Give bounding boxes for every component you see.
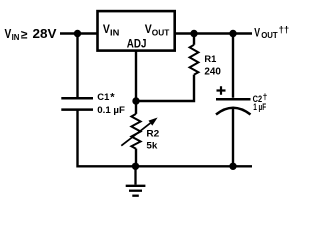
svg-text:0.1 µF: 0.1 µF bbox=[97, 105, 125, 116]
wire input to regulator bbox=[60, 32, 97, 34]
wire C2 bottom lead bbox=[232, 109, 234, 167]
node: ground junction bbox=[132, 163, 139, 170]
capacitor C2 (polarized) bbox=[216, 98, 251, 101]
label VOUT pin bbox=[145, 22, 170, 37]
svg-text:R1: R1 bbox=[204, 54, 217, 65]
label VIN pin bbox=[103, 22, 120, 37]
wire C1 bottom to ground rail bbox=[78, 110, 253, 166]
node: C2 top junction bbox=[229, 30, 236, 37]
resistor R1 bbox=[190, 45, 199, 75]
svg-text:V: V bbox=[103, 22, 110, 36]
svg-text:R2: R2 bbox=[146, 128, 159, 139]
wire R1 top lead bbox=[193, 34, 195, 45]
ground bbox=[126, 166, 146, 196]
wire R2 bottom lead bbox=[135, 149, 137, 167]
svg-text:240: 240 bbox=[204, 67, 221, 78]
label VOUT output bbox=[254, 24, 289, 40]
capacitor C1 bbox=[61, 97, 93, 100]
wire ADJ pin stub bbox=[135, 52, 137, 102]
op-amp U1 regulator box bbox=[98, 11, 175, 51]
label VIN >= 28V bbox=[5, 27, 58, 42]
node: R1 top junction bbox=[190, 30, 197, 37]
svg-text:≥: ≥ bbox=[21, 27, 28, 41]
node: input junction bbox=[74, 30, 81, 37]
label C2+ bbox=[253, 92, 268, 105]
svg-text:†: † bbox=[263, 92, 268, 102]
wire regulator output rail bbox=[176, 32, 253, 34]
svg-text:28V: 28V bbox=[33, 27, 58, 41]
C2 plus sign bbox=[217, 86, 226, 94]
svg-text:C1: C1 bbox=[97, 92, 110, 103]
svg-text:OUT: OUT bbox=[152, 28, 170, 37]
svg-text:1 µF: 1 µF bbox=[253, 102, 266, 113]
svg-text:OUT: OUT bbox=[261, 31, 278, 40]
svg-text:*: * bbox=[110, 92, 115, 104]
label C1* bbox=[97, 92, 115, 104]
svg-text:IN: IN bbox=[110, 28, 120, 37]
R2 wiper arrow bbox=[121, 123, 150, 146]
wire C2 top lead bbox=[232, 34, 234, 98]
wire R1 bottom lead to ADJ node bbox=[136, 75, 194, 101]
wire input node down to C1 bbox=[76, 34, 78, 98]
svg-text:ADJ: ADJ bbox=[127, 38, 147, 50]
svg-text:IN: IN bbox=[12, 33, 20, 42]
node: ADJ junction bbox=[132, 97, 139, 104]
wire R2 top lead bbox=[135, 101, 137, 114]
svg-text:V: V bbox=[145, 22, 152, 36]
resistor R2 (5k potentiometer) bbox=[131, 114, 140, 149]
svg-text:V: V bbox=[254, 25, 260, 39]
svg-text:††: †† bbox=[279, 24, 290, 35]
node: C2 bottom junction bbox=[229, 163, 236, 170]
svg-text:5k: 5k bbox=[146, 140, 158, 151]
